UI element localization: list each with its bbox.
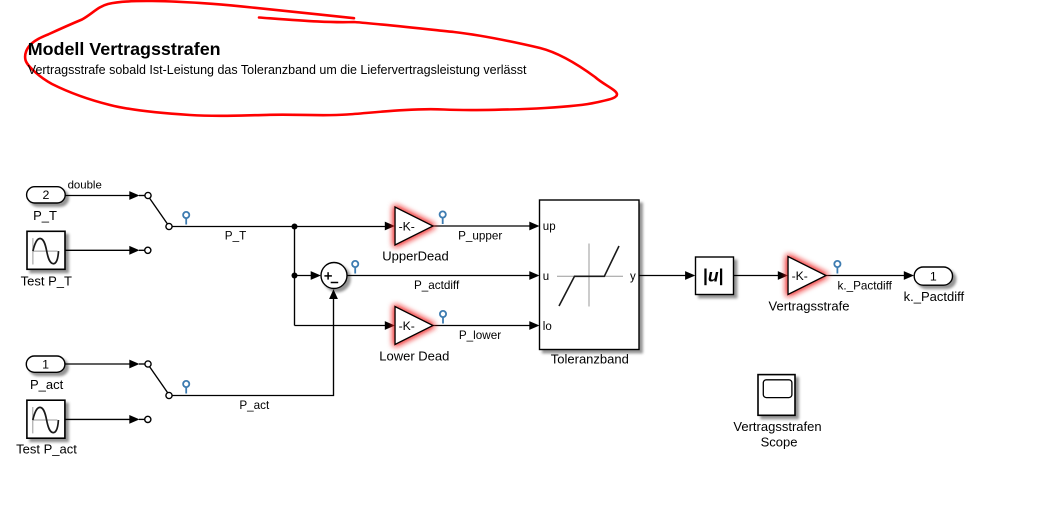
svg-text:UpperDead: UpperDead [382, 249, 449, 264]
svg-text:1: 1 [42, 357, 49, 371]
svg-text:Vertragsstrafe: Vertragsstrafe [769, 299, 850, 314]
svg-text:Test P_T: Test P_T [21, 273, 72, 288]
svg-text:y: y [630, 271, 636, 283]
svg-text:lo: lo [543, 321, 552, 333]
svg-text:k._Pactdiff: k._Pactdiff [838, 280, 893, 293]
svg-text:P_actdiff: P_actdiff [414, 279, 460, 292]
svg-text:-K-: -K- [792, 269, 808, 283]
svg-text:u: u [543, 271, 549, 283]
svg-text:|u|: |u| [703, 265, 724, 285]
svg-text:P_T: P_T [225, 230, 246, 243]
svg-text:P_act: P_act [30, 377, 64, 392]
svg-text:P_lower: P_lower [459, 329, 501, 342]
svg-text:double: double [68, 180, 102, 192]
svg-text:1: 1 [930, 269, 937, 283]
svg-text:Test P_act: Test P_act [16, 442, 77, 457]
svg-text:Vertragsstrafe sobald Ist-Leis: Vertragsstrafe sobald Ist-Leistung das T… [28, 63, 527, 77]
svg-text:Toleranzband: Toleranzband [551, 351, 629, 366]
svg-text:up: up [543, 221, 556, 233]
svg-text:2: 2 [42, 188, 49, 202]
svg-text:Modell Vertragsstrafen: Modell Vertragsstrafen [28, 39, 221, 59]
svg-text:k._Pactdiff: k._Pactdiff [904, 289, 965, 304]
svg-text:P_T: P_T [33, 208, 57, 223]
svg-text:P_act: P_act [239, 399, 270, 412]
svg-text:-K-: -K- [399, 319, 415, 333]
svg-text:-K-: -K- [399, 219, 415, 233]
svg-text:Scope: Scope [761, 435, 798, 450]
svg-text:P_upper: P_upper [458, 229, 502, 242]
svg-text:Lower Dead: Lower Dead [379, 349, 449, 364]
svg-text:Vertragsstrafen: Vertragsstrafen [733, 419, 821, 434]
